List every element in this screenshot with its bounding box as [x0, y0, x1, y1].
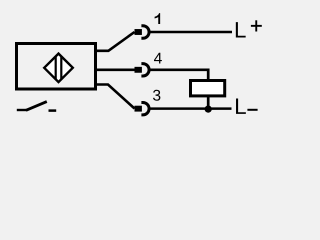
wire to pin 3	[95, 85, 135, 109]
load resistor	[191, 81, 225, 96]
L+ label	[236, 20, 262, 37]
L- label	[236, 99, 258, 114]
wire load to L- rail	[207, 96, 210, 110]
switch contact (NO) left lead	[17, 109, 27, 111]
sensor body box	[17, 44, 96, 90]
switch right contact	[49, 109, 57, 112]
pin 3 label	[153, 90, 160, 101]
wire to pin 4	[95, 69, 136, 72]
connector pin 1	[135, 26, 150, 38]
wire to pin 1	[95, 32, 135, 51]
wire pin 3 to L-	[149, 107, 231, 110]
connector pin 4	[135, 64, 150, 76]
pin 4 label	[154, 53, 162, 64]
proximity sensor symbol (diamond)	[44, 54, 73, 83]
switch lever	[26, 102, 47, 111]
wire pin 4 to load	[149, 70, 208, 80]
pin 1 label	[155, 13, 161, 24]
connector pin 3	[135, 102, 150, 114]
wire pin 1 to L+	[149, 31, 232, 34]
junction dot	[205, 106, 212, 113]
